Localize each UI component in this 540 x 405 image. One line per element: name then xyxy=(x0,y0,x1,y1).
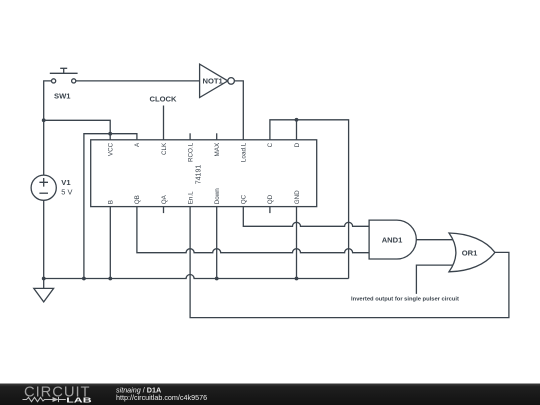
node junction rail Down xyxy=(215,277,219,281)
ground xyxy=(34,279,54,302)
wire CLOCK to CLK pin xyxy=(163,106,165,140)
svg-text:QA: QA xyxy=(161,194,168,204)
pin D stub wire xyxy=(296,120,298,140)
pin QD stub xyxy=(269,207,271,214)
wire QB to AND1 input with hops xyxy=(137,207,369,253)
svg-text:Load.L: Load.L xyxy=(241,142,248,162)
inverter NOT1 xyxy=(200,64,235,97)
and-gate AND1 xyxy=(369,220,416,259)
svg-text:RCO.L: RCO.L xyxy=(187,142,194,162)
or-gate OR1 xyxy=(449,233,495,272)
svg-text:NOT1: NOT1 xyxy=(203,77,224,86)
svg-text:GND: GND xyxy=(294,190,301,204)
node junction rail x=83.9 xyxy=(82,277,86,281)
node junction rail GND xyxy=(295,277,299,281)
svg-text:Inverted output for single pul: Inverted output for single pulser circui… xyxy=(351,296,459,302)
wire VCC stub xyxy=(109,134,111,140)
node junction V1/VCC branch xyxy=(42,118,46,122)
node junction rail at V1 xyxy=(42,277,46,281)
node junction rail B xyxy=(108,277,112,281)
pin RCO.L stub xyxy=(189,133,191,140)
wire V1- down to rail xyxy=(43,200,45,278)
svg-text:CLK: CLK xyxy=(161,142,168,155)
svg-text:SW1: SW1 xyxy=(54,91,71,100)
svg-text:5 V: 5 V xyxy=(61,188,72,197)
svg-text:C: C xyxy=(267,142,274,147)
wire VCC junction left and down to ground rail xyxy=(84,134,110,279)
pin MAX stub xyxy=(216,133,218,140)
svg-text:D: D xyxy=(294,142,301,147)
svg-text:74191: 74191 xyxy=(196,165,203,185)
wire C and D pins to ground rail xyxy=(270,120,349,279)
svg-text:MAX: MAX xyxy=(214,142,221,156)
node junction VCC xyxy=(108,132,112,136)
switch SW1 xyxy=(50,68,78,100)
wire En.L to OR1 output (feedback loop) xyxy=(190,207,509,318)
voltage source V1 xyxy=(31,175,72,200)
wire AND1 output to OR1 input xyxy=(416,239,453,241)
svg-text:OR1: OR1 xyxy=(462,249,478,258)
wire NOT1 output to Load.L pin xyxy=(234,81,243,140)
svg-text:LAB: LAB xyxy=(66,395,91,404)
wire junction to VCC pin xyxy=(44,120,111,133)
wire SW1 to NOT1 input xyxy=(76,80,200,82)
wire QC to AND1 input with hops xyxy=(243,207,369,227)
wire ground rail with hop over En.L wire xyxy=(44,275,349,279)
wire V1+ to SW1 left terminal xyxy=(44,81,52,175)
svg-text:QD: QD xyxy=(267,194,274,204)
svg-text:V1: V1 xyxy=(61,178,71,187)
svg-text:En.L: En.L xyxy=(187,191,194,204)
svg-text:VCC: VCC xyxy=(108,142,115,156)
svg-text:QB: QB xyxy=(134,195,141,204)
svg-text:http://circuitlab.com/c4k9576: http://circuitlab.com/c4k9576 xyxy=(116,393,207,402)
IC U1 74191 body xyxy=(91,140,317,207)
wire VCC junction to pin A xyxy=(110,134,137,140)
pin QA stub xyxy=(163,207,165,214)
wire Down to rail xyxy=(216,207,218,279)
svg-text:QC: QC xyxy=(241,194,248,204)
svg-text:AND1: AND1 xyxy=(382,235,403,244)
svg-text:CLOCK: CLOCK xyxy=(150,94,178,103)
svg-text:Down: Down xyxy=(214,188,221,205)
wire GND to rail xyxy=(296,207,298,279)
svg-text:B: B xyxy=(108,200,115,204)
wire OR1 lower input to annotation xyxy=(416,265,454,294)
logo doodle resistor and diode xyxy=(23,397,66,402)
wire B to rail xyxy=(109,207,111,279)
node junction D xyxy=(295,118,299,122)
